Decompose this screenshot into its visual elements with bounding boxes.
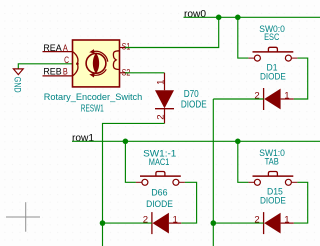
diode D70 pin 1 — [164, 73, 166, 90]
wire S1 to row0 — [125, 17, 219, 47]
svg-text:DIODE: DIODE — [260, 195, 286, 206]
rotary encoder switch contact bracket — [113, 51, 119, 70]
origin crosshair — [6, 202, 40, 232]
svg-text:MAC1: MAC1 — [149, 156, 170, 167]
rotary encoder ccw arrow — [94, 69, 106, 75]
svg-text:row0: row0 — [184, 9, 206, 20]
svg-text:1: 1 — [155, 80, 166, 85]
svg-text:D66: D66 — [151, 187, 167, 197]
wire row1 — [72, 140, 320, 142]
wire D66 to column B — [103, 222, 152, 224]
ground — [13, 69, 23, 75]
svg-text:D70: D70 — [184, 88, 199, 99]
svg-text:DIODE: DIODE — [181, 99, 207, 110]
diode D66 cathode bar — [151, 212, 153, 234]
svg-text:2: 2 — [143, 215, 148, 226]
diode D15 cathode bar — [263, 212, 265, 234]
svg-text:1: 1 — [284, 215, 289, 226]
svg-text:1: 1 — [284, 91, 289, 102]
diode D1 — [264, 89, 280, 110]
diode D1 cathode bar — [263, 88, 265, 110]
junction column B D66 — [100, 220, 106, 226]
diode D15 — [264, 213, 280, 234]
svg-text:2: 2 — [254, 91, 259, 102]
wire D70 to column B — [103, 123, 165, 246]
junction row1 MAC1 — [123, 139, 129, 145]
rotary encoder cw arrow — [94, 51, 108, 61]
pin B — [43, 75, 73, 77]
wire column A — [212, 99, 214, 246]
rotary encoder rotor circle — [86, 53, 106, 73]
svg-text:B: B — [63, 66, 68, 77]
pin A — [43, 51, 73, 53]
wire SW0 to D1 — [294, 58, 308, 99]
diode D15 pin 1 — [281, 222, 294, 224]
junction row0 ESC — [235, 14, 241, 20]
wire D1 to column A — [213, 98, 263, 100]
wire S2 to D70 — [125, 72, 165, 74]
svg-text:TAB: TAB — [265, 155, 279, 166]
diode D70 — [155, 90, 174, 108]
diode D66 pin 1 — [169, 222, 181, 224]
wire row0 — [184, 16, 320, 18]
pin S1 — [120, 47, 128, 49]
svg-text:GND: GND — [12, 77, 22, 93]
svg-text:A: A — [63, 42, 68, 53]
svg-text:DIODE: DIODE — [146, 199, 173, 209]
junction row0 S1 — [216, 14, 222, 20]
svg-text:RESW1: RESW1 — [81, 102, 104, 114]
wire SW1:0 to D15 — [294, 182, 308, 223]
junction row1 TAB — [235, 139, 241, 145]
switch SW1:-1 MAC1 — [136, 172, 185, 186]
rotary encoder switch RESW1 body — [73, 40, 120, 87]
diode D70 pin 2 — [164, 109, 166, 124]
svg-text:C: C — [64, 55, 69, 65]
wire C pin to GND — [18, 64, 72, 69]
svg-text:S1: S1 — [122, 42, 131, 52]
wire SW1:-1 to D66 — [181, 182, 196, 223]
wire row0 to SW0 — [238, 17, 249, 58]
diode D66 — [153, 213, 169, 234]
pin S2 — [120, 72, 128, 74]
svg-text:2: 2 — [155, 114, 166, 119]
switch SW1:0 TAB — [248, 172, 297, 186]
svg-text:ESC: ESC — [264, 31, 279, 42]
rotary encoder detent arcs — [73, 52, 78, 76]
svg-text:1: 1 — [173, 215, 178, 226]
wire D15 to column A — [213, 222, 263, 224]
svg-text:DIODE: DIODE — [260, 71, 286, 82]
svg-text:Rotary_Encoder_Switch: Rotary_Encoder_Switch — [44, 92, 143, 102]
wire row1 to SW1:0 — [238, 141, 249, 182]
svg-text:row1: row1 — [72, 133, 94, 144]
svg-text:REA: REA — [43, 43, 61, 53]
switch SW0:0 ESC — [248, 47, 297, 61]
wire row1 to SW1:-1 — [125, 141, 135, 182]
svg-text:REB: REB — [43, 66, 61, 76]
diode D1 pin 1 — [281, 98, 294, 100]
junction column A D15 — [211, 220, 217, 226]
svg-text:2: 2 — [254, 215, 259, 226]
rotary encoder rotor lens — [93, 53, 99, 73]
